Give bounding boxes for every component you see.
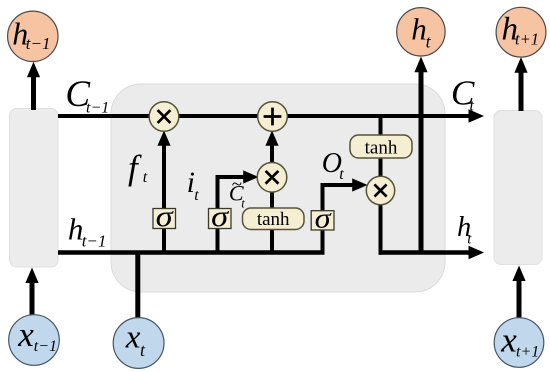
wire x_t-1 stub	[30, 282, 35, 316]
op-node forget multiply	[149, 102, 179, 132]
wire h right horizontal	[379, 250, 471, 255]
svg-text:t+1: t+1	[516, 344, 539, 361]
node h_t circle	[397, 8, 445, 56]
svg-text:t−1: t−1	[86, 100, 109, 117]
wire output-gate branch with elbow	[323, 185, 354, 253]
arrowhead into add	[265, 131, 278, 146]
svg-text:t: t	[470, 98, 475, 115]
node x_t+1 circle	[494, 318, 544, 368]
arrowhead C_t	[469, 109, 485, 123]
svg-text:t: t	[143, 169, 148, 186]
arrowhead into h_t+1 circle	[514, 57, 527, 73]
tanh box candidate	[243, 208, 305, 230]
svg-text:~: ~	[232, 174, 242, 195]
svg-text:tanh: tanh	[257, 209, 290, 230]
wire candidate branch vertical	[270, 193, 274, 253]
svg-text:σ: σ	[211, 200, 229, 233]
arrowhead into right slab	[512, 266, 525, 282]
wire output multiply down	[379, 204, 383, 255]
svg-text:σ: σ	[315, 204, 332, 235]
wire h left horizontal	[58, 250, 325, 255]
svg-text:t: t	[194, 187, 199, 204]
svg-text:t−1: t−1	[26, 34, 51, 53]
svg-text:x: x	[125, 320, 141, 356]
op-node add	[258, 102, 288, 132]
sigma box output	[311, 211, 334, 230]
svg-text:t−1: t−1	[34, 338, 57, 355]
right time-step slab	[494, 111, 542, 265]
node x_t circle	[113, 318, 164, 369]
arrowhead into h_t-1 circle	[27, 62, 40, 78]
svg-text:t: t	[241, 197, 245, 211]
wire x_t stub	[135, 251, 140, 319]
node h_t-1 circle	[8, 11, 58, 61]
wire h_t-1 stub	[31, 77, 36, 110]
arrowhead into output multiply	[352, 178, 367, 191]
arrowhead into input multiply	[243, 170, 258, 183]
svg-text:t: t	[339, 166, 344, 183]
left time-step slab	[10, 109, 59, 268]
wire h_t up branch	[419, 72, 424, 253]
sigma box input	[209, 209, 232, 229]
op-node input multiply	[257, 163, 287, 193]
svg-text:σ: σ	[156, 200, 174, 233]
wire forget branch vertical	[162, 145, 166, 253]
op-node output multiply	[366, 176, 394, 204]
svg-text:tanh: tanh	[365, 138, 398, 159]
wire C to tanh vertical	[379, 116, 383, 177]
wire x_t+1 stub	[517, 281, 522, 319]
LSTM cell body	[111, 84, 445, 292]
arrowhead h_t	[469, 246, 485, 260]
wire C line horizontal	[58, 114, 470, 118]
svg-text:h: h	[411, 12, 427, 47]
wire h_t+1 stub	[519, 73, 524, 112]
svg-text:x: x	[17, 315, 34, 354]
node h_t+1 circle	[496, 7, 546, 57]
node x_t-1 circle	[9, 315, 60, 366]
sigma box forget	[153, 209, 176, 229]
svg-text:t+1: t+1	[515, 30, 539, 49]
arrowhead into left slab	[25, 268, 38, 284]
wire multiply to add vertical	[270, 146, 274, 164]
svg-text:x: x	[500, 321, 517, 360]
arrowhead into h_t circle	[414, 57, 427, 73]
tanh box output	[350, 135, 412, 158]
wire input branch with elbow	[218, 177, 245, 253]
svg-text:t−1: t−1	[82, 232, 107, 251]
arrowhead into forget multiply	[157, 131, 170, 146]
